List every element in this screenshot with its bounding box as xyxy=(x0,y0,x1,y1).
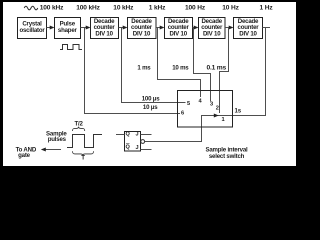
svg-text:T: T xyxy=(81,154,85,161)
wire 10ms xyxy=(194,28,211,102)
svg-text:DIV 10: DIV 10 xyxy=(95,30,113,37)
decade counter U7 xyxy=(234,18,263,39)
svg-text:1: 1 xyxy=(222,117,225,123)
decade counter U4 xyxy=(128,18,157,39)
svg-text:10 kHz: 10 kHz xyxy=(113,4,134,11)
wire xyxy=(225,27,230,29)
wire xyxy=(119,27,124,29)
svg-text:1s: 1s xyxy=(235,108,242,115)
svg-text:100 Hz: 100 Hz xyxy=(185,4,206,11)
wire J bottom xyxy=(141,149,152,151)
wire Q output xyxy=(116,134,125,136)
flip-flop clock bubble xyxy=(141,140,145,144)
wire 10us xyxy=(85,28,181,114)
svg-text:1 Hz: 1 Hz xyxy=(260,4,274,11)
svg-text:100 μs: 100 μs xyxy=(142,95,161,102)
brace T xyxy=(73,151,94,155)
decade counter U6 xyxy=(199,18,226,39)
pulse shaper U2 xyxy=(55,18,81,39)
wire 1ms xyxy=(158,28,201,98)
svg-text:3: 3 xyxy=(210,102,213,108)
svg-text:pulses: pulses xyxy=(48,136,67,143)
square wave symbol xyxy=(60,45,82,50)
wire J top xyxy=(141,134,152,136)
sample pulse waveform xyxy=(67,135,102,148)
svg-text:DIV 10: DIV 10 xyxy=(239,30,257,37)
wire xyxy=(263,27,271,29)
svg-text:DIV 10: DIV 10 xyxy=(203,30,221,37)
brace T/2 xyxy=(73,127,85,131)
wire xyxy=(47,27,51,29)
svg-text:5: 5 xyxy=(187,101,190,107)
svg-text:2: 2 xyxy=(216,106,219,112)
svg-text:shaper: shaper xyxy=(58,27,78,34)
svg-text:100 kHz: 100 kHz xyxy=(76,4,100,11)
flip-flop U8 xyxy=(125,132,141,152)
sine symbol xyxy=(24,6,38,10)
svg-text:Q: Q xyxy=(126,132,131,138)
svg-text:DIV 10: DIV 10 xyxy=(169,30,187,37)
svg-text:10 ms: 10 ms xyxy=(172,65,189,72)
svg-text:gate: gate xyxy=(18,152,31,159)
decade counter U5 xyxy=(165,18,193,39)
wire xyxy=(81,27,87,29)
svg-text:1 kHz: 1 kHz xyxy=(149,4,166,11)
svg-text:T/2: T/2 xyxy=(74,121,83,128)
svg-text:1 ms: 1 ms xyxy=(137,65,151,72)
oscillator U1 xyxy=(18,18,47,39)
svg-text:6: 6 xyxy=(181,111,184,117)
wire xyxy=(193,27,196,29)
wire xyxy=(156,27,161,29)
svg-text:J: J xyxy=(135,132,138,138)
svg-text:oscillator: oscillator xyxy=(19,27,45,34)
arrow to AND gate xyxy=(45,149,62,151)
decade counter U3 xyxy=(91,18,119,39)
svg-text:select switch: select switch xyxy=(209,153,245,160)
switch wiper arrow xyxy=(214,114,219,118)
svg-text:Q: Q xyxy=(126,145,131,151)
svg-text:100 kHz: 100 kHz xyxy=(40,4,64,11)
wire 0.1ms xyxy=(220,28,229,114)
svg-text:10 Hz: 10 Hz xyxy=(222,4,239,11)
wire 100us xyxy=(122,28,186,103)
svg-text:10 μs: 10 μs xyxy=(143,104,158,111)
svg-text:DIV 10: DIV 10 xyxy=(133,30,151,37)
wire 1s xyxy=(145,28,266,142)
svg-text:0.1 ms: 0.1 ms xyxy=(207,65,227,72)
svg-text:J: J xyxy=(135,145,138,151)
switch S1 xyxy=(178,91,233,128)
